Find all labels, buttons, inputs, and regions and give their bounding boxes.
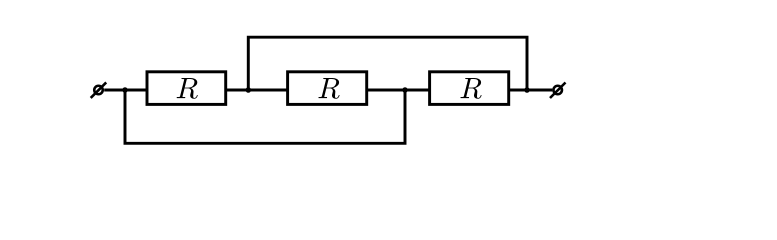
node D junction dot [524,87,530,93]
resistor R3 box [430,72,509,105]
wire: top bypass from node B up, across, down to node D [248,37,527,90]
node C junction dot [402,87,408,93]
resistor R1 box [147,72,226,105]
resistor R2 box [288,72,367,105]
terminal right (open terminal symbol) [550,83,566,99]
label R (resistor R2 value) [318,78,339,99]
label R (resistor R3 value) [460,78,481,99]
node A junction dot [122,87,128,93]
label R (resistor R1 value) [177,78,198,99]
wire: bottom bypass from node A down, across, up to node C [125,90,405,143]
wire: R3 to right terminal [509,89,553,92]
wire: R2 to R3 [367,89,430,92]
terminal left (open terminal symbol) [91,82,107,98]
wire: left terminal to resistor R1 [104,89,147,92]
wire: R1 to R2 [226,89,288,92]
node B junction dot [246,87,252,93]
